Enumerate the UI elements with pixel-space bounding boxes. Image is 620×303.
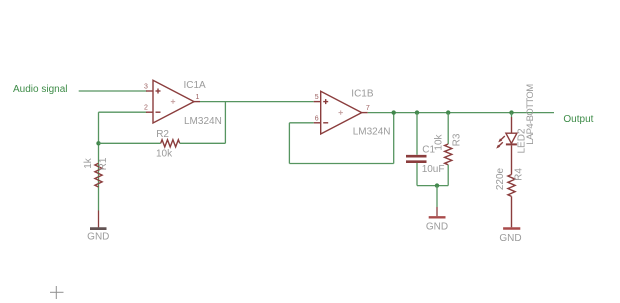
sheet origin cross	[50, 286, 64, 299]
wire C1 top	[416, 113, 418, 155]
wire pin 6 left	[289, 122, 313, 124]
svg-text:GND: GND	[87, 232, 109, 243]
svg-text:10k: 10k	[434, 133, 445, 150]
junction node at R1 top	[96, 141, 100, 145]
svg-text:220e: 220e	[495, 167, 506, 190]
LED LED2	[496, 84, 536, 175]
svg-text:6: 6	[315, 115, 319, 122]
svg-text:GND: GND	[426, 222, 448, 233]
svg-text:Audio signal: Audio signal	[13, 84, 67, 95]
wire feedback riser	[224, 102, 226, 144]
svg-text:LM324N: LM324N	[184, 116, 222, 127]
svg-text:5: 5	[315, 94, 319, 101]
resistor R2	[156, 129, 180, 160]
wire R3 top	[447, 113, 449, 144]
wire left vertical net	[98, 112, 100, 210]
svg-text:IC1A: IC1A	[184, 80, 207, 91]
svg-text:Output: Output	[563, 114, 593, 125]
svg-text:R2: R2	[156, 129, 169, 140]
junction R3 top	[446, 110, 450, 114]
svg-text:GND: GND	[499, 233, 521, 244]
wire R2 right	[180, 142, 226, 144]
wire GND2 drop	[436, 186, 438, 207]
svg-text:1k: 1k	[83, 157, 94, 169]
wire IC1A output to IC1B pin 5	[200, 101, 314, 103]
svg-text:IC1B: IC1B	[351, 89, 374, 100]
wire R3 bottom	[447, 165, 449, 186]
op-amp IC1B	[314, 89, 391, 138]
wire feedback horizontal to pin 2	[99, 111, 148, 113]
resistor R3	[434, 133, 463, 165]
resistor R1	[83, 157, 109, 187]
svg-text:R3: R3	[452, 133, 463, 146]
junction GND2	[435, 183, 439, 187]
svg-text:LAP4-BOTTOM: LAP4-BOTTOM	[525, 84, 536, 145]
wire R2 left	[99, 142, 161, 144]
junction LED top	[509, 110, 513, 114]
junction feedback/output	[392, 110, 396, 114]
svg-text:LM324N: LM324N	[353, 127, 391, 138]
wire feedback bottom	[289, 163, 393, 165]
svg-text:3: 3	[144, 83, 148, 90]
svg-text:7: 7	[366, 105, 370, 112]
svg-text:10uF: 10uF	[422, 164, 445, 175]
ground GND2	[426, 207, 448, 233]
svg-text:R4: R4	[514, 168, 525, 181]
svg-text:R1: R1	[98, 157, 109, 170]
wire IC1B output rail	[368, 112, 554, 114]
wire LED anode stub	[511, 113, 513, 117]
svg-text:1: 1	[196, 94, 200, 101]
resistor R4	[495, 167, 525, 196]
wire audio input to pin 3	[79, 90, 147, 92]
op-amp IC1A	[144, 80, 222, 127]
wire C1 bottom	[416, 163, 418, 186]
wire feedback down	[288, 123, 290, 164]
svg-text:2: 2	[144, 105, 148, 112]
ground GND3	[499, 229, 521, 245]
ground GND1	[87, 211, 109, 243]
svg-text:10k: 10k	[156, 149, 173, 160]
junction C1 top	[415, 110, 419, 114]
wire R4 to ground	[511, 196, 513, 227]
capacitor C1	[406, 145, 444, 176]
wire feedback up to output	[393, 113, 395, 164]
wire bottom rail C1-R3	[417, 185, 448, 187]
